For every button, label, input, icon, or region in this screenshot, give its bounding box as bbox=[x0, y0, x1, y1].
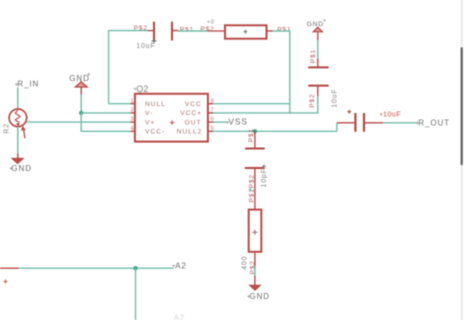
wire R_IN to LDR bbox=[17, 88, 19, 110]
node junction A2 bbox=[133, 266, 137, 270]
wire A2 drop bbox=[135, 268, 137, 320]
node junction V- bbox=[79, 111, 83, 115]
svg-text:V+: V+ bbox=[145, 119, 155, 126]
svg-text:Q2: Q2 bbox=[136, 84, 148, 94]
svg-text:VSS: VSS bbox=[228, 117, 247, 127]
svg-text:1: 1 bbox=[131, 98, 134, 104]
svg-text:GND: GND bbox=[307, 21, 324, 28]
svg-text:10pF: 10pF bbox=[261, 168, 268, 187]
wire/pins cap to box bbox=[254, 168, 256, 210]
wire VSS row up to cap4 bbox=[336, 123, 338, 132]
wire cap1 to R-box bbox=[179, 30, 209, 32]
wire pin7 row bbox=[211, 112, 319, 114]
svg-text:+0: +0 bbox=[207, 19, 215, 25]
svg-text:10uF: 10uF bbox=[383, 110, 401, 119]
svg-text:R_IN: R_IN bbox=[17, 79, 39, 88]
op-amp Q2 bbox=[131, 84, 214, 142]
svg-text:2: 2 bbox=[131, 108, 134, 114]
scrollbar track bbox=[461, 0, 463, 320]
wire C2 to pin7 row bbox=[317, 96, 319, 114]
svg-text:P$2: P$2 bbox=[309, 94, 316, 108]
svg-text:A2: A2 bbox=[174, 313, 185, 320]
wire junction down to pin4 row bbox=[81, 113, 130, 131]
svg-text:4: 4 bbox=[131, 126, 134, 132]
svg-text:P$2: P$2 bbox=[134, 25, 148, 32]
wire LDR to pin3 bbox=[27, 121, 131, 123]
wire R-box to vertical drop bbox=[273, 31, 290, 113]
svg-text:7: 7 bbox=[211, 108, 214, 114]
svg-text:OUT: OUT bbox=[185, 119, 202, 126]
photoresistor R2 bbox=[3, 109, 26, 138]
svg-text:+: + bbox=[87, 73, 91, 79]
svg-text:R_OUT: R_OUT bbox=[418, 118, 450, 127]
svg-text:P$2: P$2 bbox=[250, 260, 257, 274]
svg-text:400: 400 bbox=[242, 256, 249, 270]
wire top loop horizontal bbox=[109, 31, 148, 104]
node R_OUT label bbox=[416, 118, 450, 127]
svg-text:10uF: 10uF bbox=[136, 43, 155, 50]
capacitor C3 10pF bbox=[245, 128, 268, 187]
wire junction to pin2 bbox=[81, 112, 130, 114]
wire GND drop to junction bbox=[80, 95, 82, 113]
scrollbar thumb bbox=[461, 48, 463, 166]
svg-text:P$1: P$1 bbox=[180, 27, 194, 34]
svg-text:+: + bbox=[323, 18, 327, 24]
wire pin8 row bbox=[211, 103, 291, 105]
wire A2 net bottom bbox=[0, 267, 173, 269]
capacitor C2 10uF vertical top-right bbox=[308, 49, 338, 108]
wire LDR to GND bbox=[17, 127, 19, 154]
svg-text:P$2: P$2 bbox=[200, 26, 214, 33]
wire pin5 net bbox=[213, 130, 337, 132]
pin stubs left bbox=[131, 103, 135, 105]
origin cross off-screen part bbox=[4, 280, 8, 284]
svg-text:P$1: P$1 bbox=[248, 128, 255, 142]
svg-text:VCC-: VCC- bbox=[145, 129, 165, 136]
pin stubs right bbox=[208, 103, 213, 105]
resistor box R-top bbox=[200, 19, 291, 38]
node VSS label bbox=[226, 117, 248, 127]
wire pin1 from loop bbox=[109, 103, 131, 105]
svg-text:8: 8 bbox=[211, 98, 214, 104]
svg-text:V-: V- bbox=[145, 110, 153, 117]
svg-text:VCC: VCC bbox=[185, 101, 202, 108]
node A2 label bbox=[172, 261, 187, 270]
capacitor C4 10uF output bbox=[337, 110, 401, 132]
svg-text:10uF: 10uF bbox=[332, 89, 339, 108]
svg-text:R2: R2 bbox=[3, 123, 10, 134]
node junction pin5 bbox=[253, 129, 257, 133]
GND top-right bbox=[307, 18, 327, 40]
svg-text:VCC+: VCC+ bbox=[180, 110, 202, 117]
wire cap4 to R_OUT bbox=[383, 122, 416, 124]
svg-text:P$1: P$1 bbox=[310, 49, 317, 63]
svg-text:NULL2: NULL2 bbox=[177, 129, 203, 136]
svg-text:P$1P$2: P$1P$2 bbox=[248, 174, 255, 202]
GND top-left bbox=[69, 73, 91, 95]
svg-text:GND: GND bbox=[11, 164, 31, 173]
resistor box bottom 400 bbox=[242, 210, 262, 275]
svg-text:GND: GND bbox=[250, 292, 270, 301]
ground bottom-middle bbox=[247, 276, 270, 301]
node R_IN label bbox=[15, 79, 39, 88]
ground bottom-left bbox=[9, 154, 32, 173]
svg-text:A2: A2 bbox=[175, 261, 187, 270]
wire box to GND bbox=[254, 266, 256, 277]
capacitor C1 10uF top-left bbox=[134, 22, 194, 50]
wire GND to C2 bbox=[317, 40, 319, 59]
wire pin6 to VSS bbox=[213, 121, 227, 123]
svg-text:NULL: NULL bbox=[145, 101, 166, 108]
svg-text:3: 3 bbox=[131, 117, 134, 123]
